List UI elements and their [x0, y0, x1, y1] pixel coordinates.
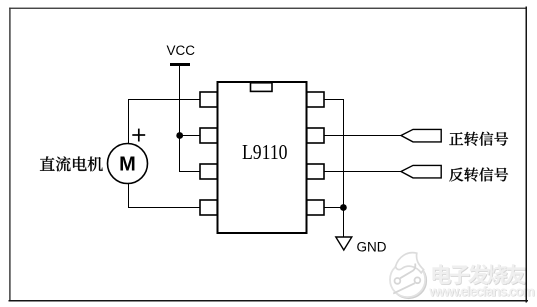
pin 7 (right) — [307, 128, 324, 143]
watermark char 发 — [468, 264, 489, 284]
wire VCC branch to pin 2 — [180, 135, 201, 137]
watermark logo icon — [390, 253, 426, 299]
svg-text:GND: GND — [357, 239, 387, 254]
dc-motor-label char 电 — [73, 157, 87, 171]
wire VCC vertical — [180, 66, 201, 172]
dc-motor-label char 流 — [56, 156, 71, 171]
wire pin 8 to GND rail — [324, 100, 344, 238]
wire motor top to pin 1 — [129, 100, 201, 145]
dc-motor-label char 机 — [88, 157, 103, 172]
wire pin 6 to reverse signal tag — [324, 171, 402, 173]
motor M1 circle — [108, 144, 148, 184]
svg-text:VCC: VCC — [167, 43, 196, 58]
watermark-shadow char 发 — [469, 265, 490, 285]
watermark-shadow char 电 — [433, 265, 452, 285]
junction dot pin5/GND rail — [340, 204, 347, 211]
rev-label char 信 — [479, 167, 493, 181]
forward signal tag — [401, 129, 441, 142]
watermark char 烧 — [487, 265, 507, 285]
fwd-label char 号 — [494, 132, 508, 146]
wire pin 5 to GND rail — [324, 207, 344, 209]
pin 3 (left) — [200, 164, 217, 179]
rev-label char 转 — [464, 168, 478, 182]
svg-text:M: M — [119, 154, 136, 176]
watermark char 友 — [506, 264, 526, 284]
pin 4 (left) — [200, 200, 217, 215]
junction dot VCC/pin2 — [176, 132, 183, 139]
motor polarity plus — [132, 129, 145, 142]
svg-text:www.elecfans.com: www.elecfans.com — [428, 284, 535, 299]
watermark-shadow char 友 — [507, 265, 527, 285]
ground symbol — [336, 237, 352, 250]
pin 1 (left) — [200, 92, 217, 107]
watermark-shadow char 烧 — [488, 265, 508, 285]
wire motor bottom to pin 4 — [129, 184, 201, 208]
rev-label char 反 — [449, 168, 463, 182]
pin 6 (right) — [307, 164, 324, 179]
op-amp / IC body U1 L9110 — [218, 82, 307, 233]
watermark char 电 — [432, 264, 451, 284]
pin 5 (right) — [307, 200, 324, 215]
fwd-label char 信 — [479, 132, 493, 146]
pin 8 (right) — [307, 92, 324, 107]
watermark char 子 — [450, 265, 470, 284]
svg-text:L9110: L9110 — [242, 140, 288, 164]
reverse signal tag — [401, 165, 441, 178]
fwd-label char 转 — [464, 132, 478, 146]
wire pin 7 to forward signal tag — [324, 135, 402, 137]
watermark-shadow char 子 — [451, 266, 471, 285]
fwd-label char 正 — [449, 132, 463, 145]
dc-motor-label char 直 — [40, 156, 55, 170]
IC orientation notch — [251, 83, 273, 92]
rev-label char 号 — [494, 168, 508, 182]
VCC power bar — [170, 63, 190, 66]
pin 2 (left) — [200, 128, 217, 143]
